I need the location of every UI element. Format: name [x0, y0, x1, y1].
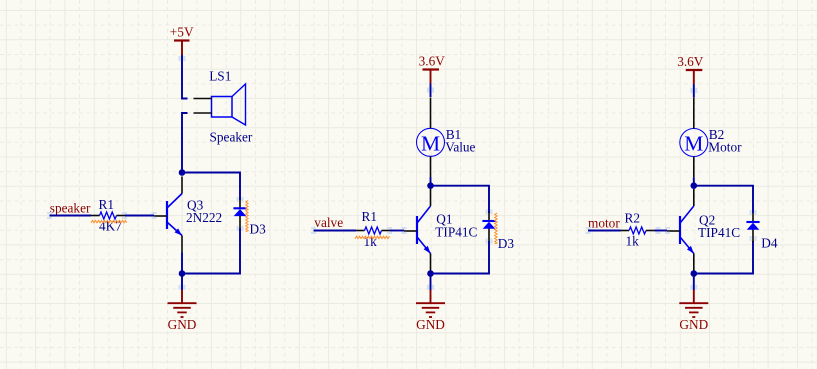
svg-text:M: M	[684, 132, 703, 156]
svg-text:Value: Value	[445, 139, 475, 154]
svg-text:Motor: Motor	[708, 140, 742, 155]
wire emitter to bottom junction	[430, 271, 432, 274]
error squiggle D3	[246, 201, 248, 233]
wire gnd stem	[181, 274, 183, 291]
resistor R1	[91, 197, 125, 234]
junction node emitter/gnd	[691, 270, 698, 277]
hotspot marker	[665, 227, 670, 229]
error squiggle D3	[495, 213, 497, 244]
ground GND	[168, 285, 197, 332]
diode D3	[482, 212, 514, 251]
hotspot marker	[402, 227, 407, 229]
wire emitter to bottom junction	[181, 253, 183, 274]
wire R1 to Q1 base	[390, 230, 404, 232]
resistor R2	[621, 210, 655, 248]
svg-text:2N222: 2N222	[186, 210, 222, 225]
power +5V	[170, 25, 194, 55]
wire net speaker to R1	[47, 212, 91, 219]
svg-text:3.6V: 3.6V	[419, 54, 446, 69]
transistor Q2	[667, 189, 740, 271]
wire net motor to R2	[586, 227, 621, 234]
wire speaker pin 2 to collector	[182, 113, 188, 173]
hotspot marker	[486, 210, 488, 215]
svg-text:D4: D4	[761, 236, 778, 251]
diode D3	[233, 199, 266, 236]
motor B2	[680, 98, 742, 178]
wire gnd stem	[693, 274, 695, 291]
junction node collector	[427, 182, 434, 189]
wire gnd stem	[430, 274, 432, 291]
svg-text:1k: 1k	[626, 234, 640, 249]
svg-text:GND: GND	[679, 317, 708, 332]
motor B1	[417, 98, 476, 178]
power 3.6V	[419, 54, 446, 84]
wire motor B1 to collector junction	[430, 177, 432, 186]
svg-text:GND: GND	[168, 317, 197, 332]
junction node collector	[179, 169, 186, 176]
svg-text:R1: R1	[362, 209, 378, 224]
junction node emitter/gnd	[179, 270, 186, 277]
transistor Q1	[404, 189, 478, 271]
svg-text:M: M	[421, 132, 440, 156]
hotspot marker	[750, 236, 752, 241]
svg-text:TIP41C: TIP41C	[698, 225, 740, 240]
net label speaker	[50, 200, 91, 215]
hotspot marker	[122, 212, 127, 214]
speaker LS1	[194, 69, 253, 145]
wire R2 to Q2 base	[655, 230, 668, 232]
wire collector to diode branch top	[694, 186, 753, 213]
hotspot marker	[656, 227, 661, 229]
diode D4	[746, 213, 778, 251]
hotspot marker	[237, 197, 239, 202]
wire +5V to speaker pin 1	[182, 55, 188, 99]
junction node collector	[691, 182, 698, 189]
wire R1 to Q3 base	[125, 215, 154, 217]
hotspot marker	[750, 210, 752, 215]
wire emitter to bottom junction	[693, 271, 695, 274]
svg-text:TIP41C: TIP41C	[435, 225, 477, 240]
svg-text:speaker: speaker	[50, 200, 91, 215]
wire bottom rail to diode branch	[694, 241, 753, 274]
svg-text:GND: GND	[416, 317, 445, 332]
svg-text:D3: D3	[250, 222, 267, 237]
transistor Q3	[154, 177, 222, 253]
svg-text:R1: R1	[99, 197, 115, 212]
hotspot marker	[179, 56, 181, 61]
wire collector to diode branch top	[182, 173, 240, 201]
wire net valve to R1	[311, 227, 356, 234]
net label motor	[588, 215, 620, 230]
svg-text:Speaker: Speaker	[210, 130, 253, 145]
svg-text:+5V: +5V	[170, 25, 194, 40]
svg-text:motor: motor	[588, 215, 620, 230]
ground GND	[679, 285, 708, 332]
wire 3.6V to motor B1	[427, 84, 434, 98]
junction node emitter/gnd	[427, 270, 434, 277]
ground GND	[416, 285, 445, 332]
wire 3.6V to motor B2	[690, 84, 697, 98]
svg-text:D3: D3	[498, 236, 515, 251]
wire bottom rail to diode branch	[431, 241, 490, 274]
svg-text:R2: R2	[625, 210, 641, 225]
wire collector to diode branch top	[431, 186, 490, 213]
net label valve	[314, 215, 343, 230]
error squiggle R1	[91, 220, 127, 222]
hotspot marker	[387, 227, 392, 229]
hotspot marker	[152, 212, 157, 214]
wire bottom rail to diode branch	[182, 228, 240, 274]
svg-text:valve: valve	[314, 215, 343, 230]
power 3.6V	[677, 54, 704, 84]
wire motor B2 to collector junction	[693, 177, 695, 186]
svg-text:3.6V: 3.6V	[677, 54, 704, 69]
error squiggle R1	[355, 236, 390, 239]
svg-text:LS1: LS1	[209, 69, 231, 84]
resistor R1	[356, 209, 390, 249]
